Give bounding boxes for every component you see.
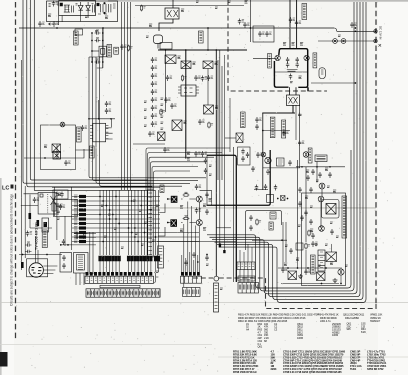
capacitor C503 [74, 236, 80, 239]
CRT socket V1 [29, 236, 43, 277]
capacitor C127 [246, 152, 249, 158]
wire tuner feet [76, 232, 93, 285]
wire matrix verticals group1 [100, 190, 119, 255]
svg-text:R708 150K R718 3.9: R708 150K R718 3.9 [233, 370, 257, 374]
capacitor C115 [151, 97, 157, 103]
wire right column [299, 105, 301, 160]
junction rail x57 [56, 27, 58, 29]
relay RY901 [75, 29, 83, 35]
label D903 [85, 16, 88, 17]
connector CN102 letter row [183, 288, 201, 297]
ic IC402 [315, 155, 327, 162]
board boundary dashed top-center [228, 0, 327, 91]
wire q301 base [167, 198, 171, 200]
label L902 [215, 7, 218, 8]
svg-text:D612 HZ6B2: D612 HZ6B2 [345, 316, 359, 320]
label R433 [316, 180, 319, 181]
page fold line lower-right [218, 356, 408, 358]
transistor Q423 [303, 152, 309, 158]
label H-HOLD [308, 148, 312, 163]
label chain L104 [161, 104, 164, 105]
capacitor C118 [151, 121, 157, 127]
label DEFLECTION R [313, 53, 317, 68]
capacitor C431 [311, 169, 314, 175]
svg-text:TH01: TH01 [350, 367, 357, 371]
wire mid right spine [262, 113, 264, 190]
wire bus B feed [89, 28, 103, 57]
label R305 [180, 206, 183, 209]
label R404 [283, 43, 286, 46]
label degauss [245, 1, 248, 4]
capacitor C913 [120, 44, 126, 50]
block h-size [277, 158, 285, 166]
wire G2 feeds [182, 252, 198, 272]
transistor Q304 [196, 220, 202, 226]
page fold line upper [0, 302, 408, 304]
capacitor C329 [204, 158, 207, 164]
label chain L122 [161, 122, 164, 123]
wire standby H [24, 157, 70, 159]
label H-LINEARITY [270, 117, 275, 138]
dark part on bus [21, 262, 24, 268]
label R307 [180, 229, 183, 232]
wire thick bend B+ [207, 155, 236, 282]
label R406 [300, 43, 303, 46]
junction loop feed [281, 239, 283, 241]
scanner left edge shadow [0, 178, 2, 375]
capacitor C512 [62, 263, 65, 269]
capacitor C603 [311, 241, 317, 247]
resistor R911 [140, 5, 145, 12]
fuse lead F102 [219, 50, 221, 244]
label R322 [209, 165, 212, 166]
capacitor C905 [52, 21, 58, 27]
svg-text:10KB: 10KB [297, 336, 303, 340]
wire crt long H [19, 254, 62, 256]
wire q303 base [167, 222, 170, 224]
label R408 [290, 82, 293, 83]
transistor Q103 [203, 61, 213, 69]
label TH901 [146, 36, 149, 37]
capacitor C425 [288, 160, 291, 166]
wire flyback top [262, 105, 295, 113]
transistor Q426 [319, 226, 325, 232]
wire reg links [92, 33, 103, 68]
junction rail-busB [102, 27, 104, 29]
terminal DC+ [374, 30, 377, 33]
wire loop feed H [252, 239, 287, 241]
svg-text:TV-4056-MF1 (X): TV-4056-MF1 (X) [35, 221, 39, 250]
connector CN103 upper cells [237, 262, 255, 270]
resistor R101 [160, 109, 165, 116]
label matrix R133 [133, 200, 136, 201]
wire loop tails vertical [283, 222, 286, 268]
label TP1 [220, 288, 223, 289]
capacitor C326 [205, 192, 208, 198]
module vertical out [322, 200, 340, 219]
transformer T202 [38, 193, 57, 215]
capacitor C126 [241, 156, 244, 162]
resistor array RA301 [147, 190, 153, 257]
connector CN102 pin strip [181, 272, 200, 276]
block video outline [246, 211, 282, 250]
wire q103 drop [207, 69, 209, 106]
wire CRT feed line [21, 60, 23, 270]
connector CN104 vertical [318, 250, 325, 271]
resistor R321 [256, 219, 261, 226]
label matrix R114 [114, 228, 117, 229]
wire degauss link [253, 58, 277, 60]
wire stair harness [146, 148, 230, 190]
transistor Q601 [288, 271, 297, 280]
capacitor C613 [289, 248, 292, 254]
capacitor C321 [255, 185, 258, 191]
parts list block B [233, 349, 387, 374]
transistor Q422 [265, 157, 271, 163]
junction standby [44, 157, 46, 159]
block deflection bridge [274, 49, 308, 92]
capacitor C403 [296, 57, 299, 63]
label R405 [292, 43, 295, 46]
module tuner box [74, 253, 89, 274]
capacitor C206 [59, 204, 65, 210]
capacitor C441 [304, 210, 307, 216]
wire bus B harness [89, 57, 206, 186]
capacitor C405 [289, 74, 292, 80]
capacitor C511 [62, 255, 65, 261]
matrix scattered labels [0, 0, 1, 1]
page fold band middle [150, 207, 376, 209]
svg-text:8.2K: 8.2K [361, 330, 366, 334]
label R611 [284, 263, 287, 266]
capacitor C116 [151, 105, 157, 111]
jumper strip JW1 [214, 283, 219, 312]
capacitor C436 [300, 215, 303, 221]
wire bus A line4 [34, 0, 155, 190]
svg-text:Q61: Q61 [258, 345, 263, 349]
transistor Q101 [165, 55, 176, 64]
wire chain top [158, 49, 247, 51]
capacitor C423 [282, 130, 288, 136]
capacitor C203 [81, 125, 87, 131]
ground G601 [298, 274, 303, 279]
junction loop-H [355, 82, 357, 84]
arrow input [48, 23, 51, 25]
capacitor C922 [243, 22, 249, 28]
capacitor C601 [281, 267, 287, 273]
label H-DRIVE [241, 112, 246, 128]
capacitor C204 [64, 160, 70, 166]
capacitor C612 [330, 229, 333, 235]
transistor Q106 [158, 132, 166, 141]
diode D901 [78, 2, 83, 13]
wire G3 feeds [240, 244, 252, 283]
wire top feed [135, 5, 244, 7]
label R121 [187, 152, 190, 155]
transistor Q201 [60, 122, 65, 127]
label R306 [203, 204, 206, 207]
label C440 [327, 186, 330, 187]
capacitor C433 [309, 187, 312, 193]
capacitor C325 [249, 225, 252, 231]
capacitor C505 [62, 239, 65, 245]
label R308 [203, 228, 206, 231]
wire crt H link [60, 244, 96, 246]
block standby outline [41, 125, 76, 170]
label H-CENT [282, 120, 286, 138]
capacitor C102 [194, 75, 200, 81]
block crt outline [27, 259, 48, 277]
label T201 [90, 146, 95, 158]
resistor R601 [305, 243, 310, 250]
label C611 [318, 265, 321, 266]
capacitor C508 [26, 231, 32, 237]
wire right area link [311, 82, 355, 84]
wire thick pair 2 [233, 147, 235, 282]
wire bridge feet [290, 87, 297, 95]
wire bus C [122, 2, 131, 190]
label 12V [338, 35, 341, 36]
capacitor C123 [194, 151, 200, 157]
block matrix driver [53, 190, 68, 199]
transistor Q604 [338, 269, 344, 275]
capacitor C923 [258, 31, 264, 37]
capacitor C113 [151, 81, 157, 87]
label CN105 [269, 222, 273, 230]
label chain M125 [144, 125, 147, 126]
junction rail-right bus [355, 27, 357, 29]
label R434 [305, 196, 308, 199]
label matrix R108 [108, 214, 111, 215]
capacitor C427 [266, 169, 269, 175]
capacitor C421 [255, 117, 261, 123]
label REMOTE SENSOR [311, 255, 316, 274]
transistor Q603 [326, 252, 337, 262]
label R613 [330, 262, 333, 265]
wire mid link [133, 143, 165, 145]
transistor Q602 [317, 272, 326, 281]
capacitor C602 [304, 269, 310, 275]
transistor Q107 [236, 133, 243, 143]
left column extra labels [0, 0, 1, 1]
transistor Q104 [204, 105, 214, 114]
relay box RL201 [42, 218, 49, 232]
wire bottom block H [278, 268, 342, 284]
wire y168 [263, 167, 300, 169]
label R913 [196, 1, 199, 2]
capacitor C907 [95, 37, 101, 42]
wire ring feed [215, 50, 217, 276]
wire matrix top rail [52, 187, 160, 189]
line filter L901 [64, 5, 70, 12]
capacitor block C902-C904 [101, 2, 111, 13]
transistor Q302 [196, 196, 202, 202]
label 0.5A [206, 264, 209, 265]
label chain L116 [161, 116, 164, 117]
label R407 [299, 76, 302, 79]
capacitor C514 [60, 192, 63, 198]
regulator IC901 [92, 46, 106, 57]
matrix junction dots [99, 196, 156, 243]
matrix bottom parts [99, 256, 160, 272]
label matrix R121 [121, 247, 124, 248]
wire rail jog [334, 28, 337, 31]
capacitor C501 [74, 232, 80, 235]
svg-text:Circuits are subject to change: Circuits are subject to change without n… [10, 194, 14, 306]
wire v osc rail [296, 166, 345, 168]
resistor array RA302 [158, 246, 164, 268]
capacitor C901 [52, 1, 58, 7]
capacitor C201 [105, 101, 111, 107]
capacitor C925 [289, 17, 295, 23]
capacitor C114 [151, 89, 157, 95]
svg-text:945: 945 [347, 327, 352, 331]
capacitor C504 [82, 236, 88, 239]
svg-text:220K: 220K [271, 367, 277, 371]
board boundary dashed right [375, 2, 377, 304]
wire heater rows [74, 234, 96, 238]
capacitor C112 [151, 73, 157, 79]
label R616 [285, 245, 288, 246]
label IC901 DC-DC [107, 45, 112, 58]
resistor R914 [127, 45, 132, 52]
arrow DC jack [379, 44, 382, 47]
capacitor C515 [56, 203, 62, 209]
wire matrix left feeds [54, 187, 71, 250]
label C912 [228, 1, 231, 2]
label C911 [105, 16, 108, 19]
capacitor C401 [286, 57, 289, 63]
capacitor C924 [265, 31, 271, 37]
wire Q901 emitter [159, 19, 173, 31]
top band hatch [49, 3, 116, 14]
matrix row resistors [72, 195, 199, 243]
svg-text:SP02 8R F702: SP02 8R F702 [367, 367, 384, 371]
posistor module box [253, 26, 274, 42]
block vertical board outline [302, 193, 346, 286]
label B+115V [114, 47, 119, 54]
label Q603b [325, 244, 328, 245]
label R204 [57, 218, 60, 219]
label matrix R141 [141, 244, 144, 245]
board boundary dashed bottom left of junction [193, 277, 213, 279]
fuse F901 [333, 39, 338, 44]
svg-text:C708 0.01 C718 33/16 Q708 2SC2: C708 0.01 C718 33/16 Q708 2SC2482 D708 M… [283, 370, 342, 374]
svg-text:L601 4.7u: L601 4.7u [320, 319, 331, 323]
label R438 [298, 225, 301, 226]
capacitor C914 [38, 21, 44, 27]
wire bus A line2 [27, 0, 152, 187]
capacitor C422 [255, 124, 258, 130]
junction dc-bus [355, 30, 357, 32]
label AUDIO [160, 185, 164, 193]
capacitor C106 [170, 103, 176, 109]
left column parts [0, 0, 1, 1]
capacitor C301 [195, 184, 201, 190]
capacitor C426 [251, 166, 254, 172]
thermistor TH901 [154, 35, 163, 49]
resistor R301 [183, 192, 190, 196]
wire centre drops [200, 155, 212, 205]
capacitor C110 [151, 57, 157, 63]
wire loop harness right [207, 2, 366, 303]
capacitor C324 [249, 215, 252, 221]
bottom-left corner ink blot [0, 352, 8, 367]
wire stub y228 [216, 227, 231, 229]
ic IC101 [178, 85, 199, 96]
extra filter parts [60, 3, 99, 13]
block snubber [238, 147, 250, 165]
wire bus A line3 [30, 0, 148, 180]
wire DC input lower [318, 40, 375, 42]
capacitor C330 [204, 168, 207, 174]
capacitor C205 [33, 197, 39, 203]
transistor Q301 dark [171, 196, 178, 203]
block r-c [296, 243, 303, 250]
junction ring [214, 276, 219, 281]
block AC input outline outer [47, 1, 118, 22]
capacitor C507 [26, 250, 32, 253]
label R439 [315, 244, 318, 245]
connector CN101 pin strip [86, 272, 153, 276]
capacitor C438 [306, 175, 309, 181]
capacitor C434 [298, 187, 301, 193]
transformer T401 [287, 95, 300, 106]
wire dark bus bar [207, 150, 271, 205]
capacitor C302 [195, 208, 201, 214]
bracket G1 [155, 272, 159, 283]
label VERT OUTPUT [342, 196, 347, 238]
capacitor C107 [198, 119, 204, 125]
transistor Q303 dark [170, 219, 177, 227]
label P06 1.5 [287, 70, 298, 72]
label chain M117 [144, 117, 147, 118]
label matrix R156 [156, 205, 159, 206]
capacitor C439 [328, 172, 331, 178]
wire bridge feeds [290, 0, 297, 49]
label VR rounded [319, 68, 325, 79]
wire crt right leads [43, 266, 57, 274]
wire audio links [158, 199, 199, 236]
wire x230 drop [229, 98, 231, 152]
label chain M109 [144, 109, 147, 110]
capacitor C502 [82, 232, 88, 235]
wire spine branch [263, 130, 290, 132]
capacitor C117 [151, 113, 157, 119]
capacitor C101 [166, 75, 172, 81]
transistor Q425 [318, 196, 324, 202]
transistor Q102 [181, 61, 191, 69]
transistor Q202 [52, 144, 61, 153]
label R903 [95, 31, 98, 32]
capacitor C516 [56, 209, 59, 215]
transistor Q402 [304, 55, 309, 60]
label matrix R139 [139, 210, 142, 211]
label AC FILTER [74, 31, 79, 45]
label matrix R152 [152, 240, 155, 241]
capacitor C921 [238, 19, 244, 25]
component in video block [270, 212, 276, 219]
diode D902 [86, 2, 91, 13]
svg-text:SW601 P: SW601 P [370, 319, 381, 323]
capacitor C125 [241, 149, 244, 155]
wire y190 link [254, 189, 268, 191]
transistor Q424 [319, 183, 325, 189]
connector CN102 cell row [181, 276, 202, 283]
wire vosc links [298, 160, 323, 250]
wire bridge mid [274, 71, 307, 73]
capacitor C513 [55, 192, 58, 198]
